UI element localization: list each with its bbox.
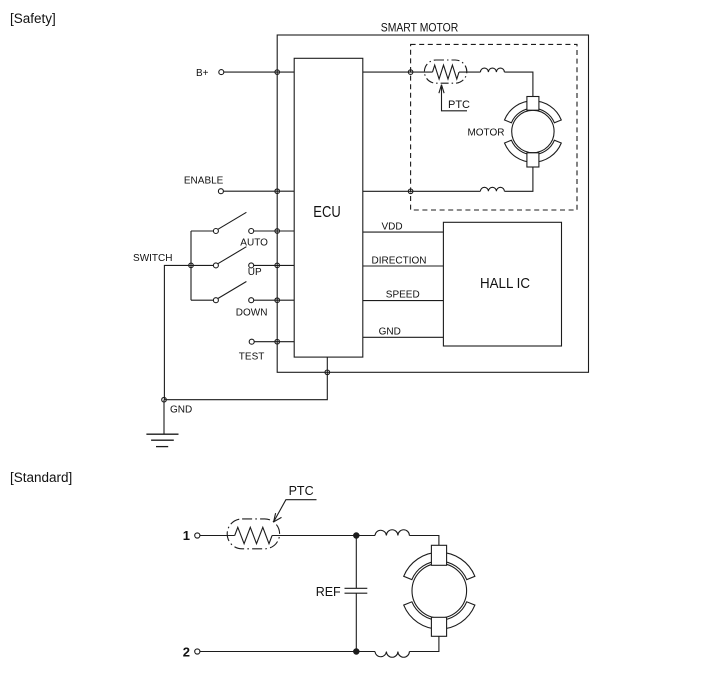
wire PTC to inductor — [459, 71, 480, 73]
svg-text:2: 2 — [183, 644, 190, 659]
capacitor REF C1 — [345, 536, 368, 652]
junction DOWN at enclosure edge — [275, 298, 280, 303]
terminal ENABLE — [218, 189, 223, 194]
SMART MOTOR enclosure box — [277, 35, 588, 372]
wire ECU VDD to HALL IC — [363, 231, 444, 233]
junction B+ at enclosure edge — [275, 70, 280, 75]
label PTC with leader arrow (standard) — [274, 484, 317, 522]
svg-text:1: 1 — [183, 528, 190, 543]
junction ground at enclosure edge — [325, 370, 330, 375]
wire ECU ground lead — [164, 357, 327, 400]
junction node A — [354, 533, 359, 538]
junction GND node — [162, 397, 167, 402]
wire terminal 1 to PTC — [200, 535, 235, 537]
dashed motor-assembly box — [411, 44, 577, 210]
svg-text:MOTOR: MOTOR — [467, 128, 504, 139]
wire ECU to PTC (upper motor feed) — [363, 71, 433, 73]
label PTC with leader arrow — [439, 85, 470, 111]
svg-text:AUTO: AUTO — [240, 237, 268, 248]
svg-text:ECU: ECU — [313, 204, 340, 221]
inductor L4 — [375, 652, 409, 658]
wire ECU to lower inductor — [363, 190, 481, 192]
junction TEST at enclosure edge — [275, 339, 280, 344]
svg-text:HALL IC: HALL IC — [480, 275, 530, 292]
switch S2 UP — [191, 247, 294, 268]
svg-text:PTC: PTC — [289, 484, 314, 498]
junction ENABLE at enclosure edge — [275, 189, 280, 194]
PTC dash-dot outline R2 — [227, 519, 279, 549]
wire TEST to ECU — [254, 341, 294, 343]
HALL IC U2 box — [443, 222, 561, 346]
svg-text:TEST: TEST — [239, 352, 265, 363]
svg-text:GND: GND — [379, 327, 401, 338]
ECU U1 box — [294, 58, 363, 357]
wire inductor to motor bottom (standard) — [409, 636, 439, 651]
motor M1 — [505, 97, 562, 168]
inductor L3 — [375, 530, 409, 536]
wire ECU DIRECTION to HALL IC — [363, 265, 444, 267]
wire ECU GND to HALL IC — [363, 336, 444, 338]
wire inductor to motor top — [504, 72, 533, 96]
svg-text:B+: B+ — [196, 68, 209, 79]
junction AUTO at enclosure edge — [275, 229, 280, 234]
svg-text:SWITCH: SWITCH — [133, 253, 172, 264]
svg-text:ENABLE: ENABLE — [184, 176, 224, 187]
wire to ground symbol — [163, 400, 165, 435]
wire switch bus vertical — [190, 231, 192, 300]
svg-text:SPEED: SPEED — [386, 290, 420, 301]
switch S3 DOWN — [191, 282, 294, 303]
terminal TEST — [249, 339, 254, 344]
svg-text:DOWN: DOWN — [236, 308, 268, 319]
wire ENABLE to ECU — [223, 190, 294, 192]
terminal 1 — [195, 533, 200, 538]
terminal B+ — [219, 70, 224, 75]
inductor L1 — [480, 68, 504, 72]
svg-text:[Safety]: [Safety] — [10, 11, 56, 26]
wire SWITCH feed — [164, 265, 191, 399]
motor M2 — [404, 545, 475, 636]
terminal 2 — [195, 649, 200, 654]
svg-text:SMART MOTOR: SMART MOTOR — [381, 21, 459, 35]
svg-text:REF: REF — [316, 585, 341, 599]
svg-text:GND: GND — [170, 405, 192, 416]
wire B+ to ECU — [224, 71, 294, 73]
svg-text:DIRECTION: DIRECTION — [372, 256, 427, 267]
inductor L2 — [480, 187, 504, 191]
wire ECU SPEED to HALL IC — [363, 300, 444, 302]
junction node B — [354, 649, 359, 654]
wire inductor to motor bottom — [504, 167, 533, 191]
svg-text:VDD: VDD — [382, 222, 403, 233]
svg-text:PTC: PTC — [448, 99, 470, 111]
svg-text:UP: UP — [248, 267, 262, 278]
switch S1 AUTO — [191, 212, 294, 233]
svg-text:[Standard]: [Standard] — [10, 470, 72, 485]
ground — [146, 434, 178, 446]
wire inductor to motor top (standard) — [409, 536, 439, 546]
resistor PTC R2 — [235, 527, 272, 543]
wire PTC to node A — [272, 535, 375, 537]
junction lower feed at dashed box edge — [408, 189, 413, 194]
resistor PTC R1 — [433, 65, 460, 79]
wire terminal 2 to node B — [200, 651, 375, 653]
junction switch bus — [189, 263, 194, 268]
junction upper feed at dashed box edge — [408, 70, 413, 75]
PTC dash-dot outline R1 — [424, 60, 466, 83]
junction UP at enclosure edge — [275, 263, 280, 268]
